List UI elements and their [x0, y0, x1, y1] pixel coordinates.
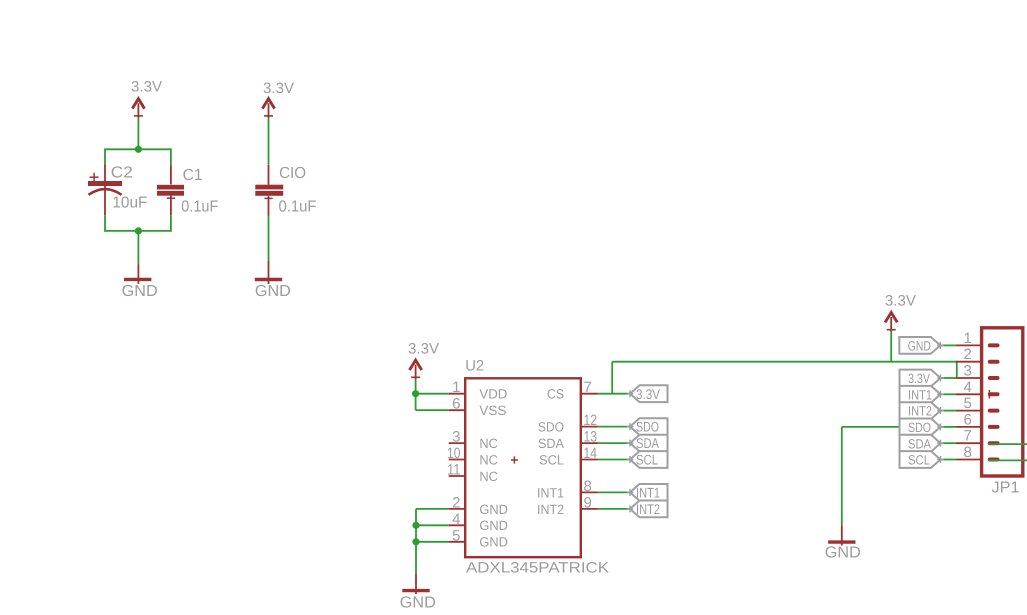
label CIO [279, 165, 306, 182]
pin number 6 [452, 396, 460, 413]
wire top rail C2-C1 [105, 148, 171, 150]
connector JP1 body [982, 328, 1023, 476]
svg-text:3.3V: 3.3V [131, 79, 162, 96]
ground symbol (left) [124, 278, 151, 281]
pin 9 stub [581, 508, 598, 510]
pin name GND (pin 4) [479, 518, 508, 533]
connector pin number 1 [963, 330, 971, 347]
pin 1 stub [449, 393, 466, 395]
svg-text:GND: GND [479, 502, 508, 517]
supply symbol 3.3V (CIO) [262, 99, 274, 119]
svg-text:4: 4 [452, 511, 460, 528]
svg-text:CIO: CIO [279, 165, 306, 182]
wire flag to pin5 [940, 410, 956, 412]
svg-text:7: 7 [963, 428, 971, 445]
ground symbol (CIO) [255, 278, 282, 281]
svg-text:GND: GND [479, 518, 508, 533]
ground pin (JP1 area) [841, 525, 843, 545]
pin 12 stub [581, 426, 598, 428]
wire SCL to edge [988, 459, 1027, 461]
net flag INT2 (JP1) [900, 402, 944, 419]
origin cross U2 [511, 456, 518, 463]
pin 6 stub [449, 409, 466, 411]
wire GND stem (left) [137, 231, 139, 265]
op-amp U2 body [465, 378, 581, 557]
connector pin 6 stub [956, 426, 982, 428]
svg-text:3: 3 [963, 363, 971, 380]
label C2 [111, 165, 133, 182]
svg-text:SCL: SCL [539, 452, 564, 467]
wire GND pin2 [416, 508, 449, 510]
wire flag to pin4 [940, 393, 956, 395]
svg-text:GND: GND [255, 283, 291, 300]
pin 2 stub [449, 508, 466, 510]
svg-text:SCL: SCL [636, 452, 658, 468]
svg-text:11: 11 [447, 462, 461, 479]
pin name GND (pin 5) [479, 535, 508, 550]
connector pin 1 stub [956, 344, 982, 346]
connector pin 5 stub [956, 410, 982, 412]
value 10uF [112, 195, 147, 212]
power flag 3.3V label (JP1) [885, 293, 916, 310]
svg-text:3.3V: 3.3V [885, 293, 916, 310]
svg-text:SDO: SDO [538, 420, 564, 435]
pin number 7 [584, 379, 592, 396]
capacitor CIO [255, 165, 283, 216]
connector pin 7 stub [956, 442, 982, 444]
connector pin number 4 [963, 379, 971, 396]
capacitor C1 [157, 165, 184, 215]
pin number 12 [584, 412, 598, 429]
wire VDD [416, 393, 449, 395]
connector pin number 3 [963, 363, 971, 380]
supply symbol 3.3V (left) [132, 99, 144, 119]
node junction pin5 [412, 538, 419, 545]
svg-text:ADXL345PATRICK: ADXL345PATRICK [466, 560, 609, 577]
svg-text:3.3V: 3.3V [263, 80, 294, 97]
wire C1 bottom [170, 215, 172, 232]
pin name VSS (pin 6) [479, 403, 506, 418]
connector JP1 pads [988, 343, 1000, 461]
pin number 8 [584, 478, 592, 495]
pin number 5 [452, 527, 460, 544]
svg-text:6: 6 [452, 396, 460, 413]
svg-text:VDD: VDD [479, 387, 507, 402]
node junction VDD [412, 390, 419, 397]
ground pin (U2) [415, 574, 417, 594]
pin name NC (pin 11) [479, 469, 498, 484]
pin name NC (pin 10) [479, 452, 498, 467]
svg-text:10: 10 [447, 445, 461, 462]
value 0.1uF (C1) [181, 199, 218, 216]
wire C1 top drop [170, 148, 172, 165]
net flag INT1 (JP1) [900, 386, 944, 403]
pin name INT2 (pin 9) [537, 502, 564, 517]
wire SDA to edge [988, 443, 1027, 445]
connector pin number 7 [963, 428, 971, 445]
label JP1 [992, 480, 1020, 497]
pin name INT1 (pin 8) [537, 485, 564, 500]
pin number 10 [447, 445, 461, 462]
svg-text:8: 8 [963, 444, 971, 461]
svg-text:NC: NC [479, 436, 498, 451]
wire SDA [598, 442, 631, 444]
svg-text:12: 12 [584, 412, 598, 429]
pin 10 stub [449, 459, 466, 461]
wire SDO [598, 426, 631, 428]
label GND (left) [122, 283, 158, 300]
svg-text:GND: GND [122, 283, 158, 300]
svg-text:1: 1 [963, 330, 971, 347]
wire flag to pin6 [940, 426, 956, 428]
svg-text:INT2: INT2 [908, 404, 932, 419]
connector pin 8 stub [956, 459, 982, 461]
power flag 3.3V label (left) [131, 79, 162, 96]
wire flag to pin7 [940, 442, 956, 444]
wire GND pin5 [416, 541, 449, 543]
node junction top [135, 146, 142, 153]
svg-text:4: 4 [963, 379, 971, 396]
wire SCL [598, 459, 631, 461]
wire INT1 [598, 491, 631, 493]
wire SDO horizontal [842, 426, 941, 428]
svg-text:GND: GND [908, 339, 931, 354]
pin 8 stub [581, 491, 598, 493]
svg-text:GND: GND [825, 545, 861, 562]
svg-text:SDO: SDO [636, 419, 659, 435]
svg-text:GND: GND [400, 595, 436, 612]
wire CIO bottom [268, 216, 270, 261]
connector pin number 8 [963, 444, 971, 461]
wire 3.3V drop to pin3 [956, 362, 958, 378]
svg-text:SDA: SDA [636, 435, 660, 451]
wire GND pin4 [416, 524, 449, 526]
power flag 3.3V label (CIO) [263, 80, 294, 97]
connector pin4 tick [988, 390, 990, 399]
svg-text:GND: GND [479, 535, 508, 550]
svg-text:5: 5 [452, 527, 460, 544]
wire 3.3V stem (left) [137, 118, 139, 150]
node junction bottom [135, 227, 142, 234]
ground pin (left) [137, 265, 139, 284]
label GND (U2) [400, 595, 436, 612]
svg-text:CS: CS [547, 387, 564, 402]
wire flag to pin8 [940, 459, 956, 461]
pin 11 stub [449, 475, 466, 477]
pin number 4 [452, 511, 460, 528]
svg-text:SCL: SCL [908, 453, 930, 468]
svg-text:10uF: 10uF [112, 195, 147, 212]
supply symbol 3.3V (JP1) [885, 313, 897, 333]
svg-text:NC: NC [479, 469, 498, 484]
supply symbol 3.3V (U2) [410, 360, 422, 380]
net flag 3.3V (JP1) [900, 370, 944, 387]
svg-text:7: 7 [584, 379, 592, 396]
wire CS riser [611, 362, 613, 394]
pin name SDO (pin 12) [538, 420, 564, 435]
ground pin (CIO) [268, 261, 270, 284]
svg-text:U2: U2 [465, 358, 484, 375]
net flag SDO (U2) [627, 418, 668, 435]
wire GND flag to pin1 [940, 344, 956, 346]
connector pin number 6 [963, 411, 971, 428]
pin 13 stub [581, 442, 598, 444]
pin number 13 [584, 429, 598, 446]
pin name NC (pin 3) [479, 436, 498, 451]
wire flag to pin3 [940, 377, 956, 379]
pin 7 stub [581, 393, 598, 395]
svg-text:3: 3 [452, 429, 460, 446]
pin 5 stub [449, 541, 466, 543]
svg-text:5: 5 [963, 395, 971, 412]
net flag SDA (JP1) [900, 435, 944, 452]
svg-text:3.3V: 3.3V [908, 371, 930, 386]
pin number 2 [452, 494, 460, 511]
pin name SDA (pin 13) [538, 436, 564, 451]
wire INT2 [598, 508, 631, 510]
wire GND vertical (U2) [415, 509, 417, 574]
net flag 3.3V (U2) [627, 385, 668, 402]
svg-text:0.1uF: 0.1uF [181, 199, 218, 216]
node junction pin4 [412, 522, 419, 529]
svg-text:INT1: INT1 [908, 387, 932, 402]
svg-text:3.3V: 3.3V [636, 386, 661, 402]
svg-text:9: 9 [584, 494, 592, 511]
net flag INT2 (U2) [627, 501, 668, 518]
pin name SCL (pin 14) [539, 452, 564, 467]
wire C2 top drop [104, 148, 106, 164]
wire 3.3V rail to JP1 [612, 361, 957, 363]
pin 14 stub [581, 459, 598, 461]
pin number 9 [584, 494, 592, 511]
wire VSS [416, 409, 449, 411]
wire 3.3V stem (JP1) [890, 331, 892, 362]
svg-text:13: 13 [584, 429, 598, 446]
svg-text:1: 1 [452, 379, 460, 396]
wire CS [598, 393, 631, 395]
svg-text:6: 6 [963, 411, 971, 428]
svg-text:VSS: VSS [479, 403, 506, 418]
net flag SDO (JP1) [900, 419, 944, 436]
svg-text:14: 14 [584, 445, 598, 462]
svg-text:JP1: JP1 [992, 480, 1020, 497]
svg-text:C1: C1 [183, 167, 203, 184]
svg-text:INT1: INT1 [636, 485, 660, 501]
power flag 3.3V label (U2) [408, 341, 439, 358]
value 0.1uF (CIO) [279, 199, 317, 216]
wire SDO vertical [841, 427, 843, 525]
value ADXL345PATRICK [466, 560, 609, 577]
wire 3.3V stem (U2) [415, 379, 417, 410]
svg-text:2: 2 [963, 346, 971, 363]
label GND (JP1 area) [825, 545, 861, 562]
svg-text:INT2: INT2 [537, 502, 564, 517]
pin number 14 [584, 445, 598, 462]
svg-text:NC: NC [479, 452, 498, 467]
net flag SDA (U2) [627, 435, 668, 452]
pin name CS (pin 7) [547, 387, 564, 402]
pin number 1 [452, 379, 460, 396]
wire 3.3V stem (CIO) [268, 118, 270, 165]
svg-text:INT1: INT1 [537, 485, 564, 500]
label GND (CIO) [255, 283, 291, 300]
svg-text:8: 8 [584, 478, 592, 495]
svg-text:INT2: INT2 [636, 501, 660, 517]
net flag SCL (JP1) [900, 451, 944, 468]
connector pin number 2 [963, 346, 971, 363]
ground symbol (U2) [402, 589, 429, 592]
connector pin 2 stub [956, 361, 982, 363]
wire bottom rail C2-C1 [105, 230, 171, 232]
ground symbol (JP1 area) [828, 540, 855, 543]
pin number 3 [452, 429, 460, 446]
net flag GND (JP1) [899, 337, 943, 354]
pin 3 stub [449, 442, 466, 444]
label U2 [465, 358, 484, 375]
connector pin 3 stub [956, 377, 982, 379]
pin number 11 [447, 462, 461, 479]
label C1 [183, 167, 203, 184]
net flag INT1 (U2) [627, 484, 668, 501]
pin 4 stub [449, 524, 466, 526]
pin name GND (pin 2) [479, 502, 508, 517]
wire C2 bottom [104, 215, 106, 232]
svg-text:C2: C2 [111, 165, 133, 182]
svg-text:3.3V: 3.3V [408, 341, 439, 358]
svg-text:0.1uF: 0.1uF [279, 199, 317, 216]
pin name VDD (pin 1) [479, 387, 507, 402]
net flag SCL (U2) [627, 451, 668, 468]
capacitor C2 [88, 164, 122, 215]
connector pin number 5 [963, 395, 971, 412]
svg-text:SDO: SDO [908, 420, 931, 435]
svg-text:SDA: SDA [538, 436, 564, 451]
svg-text:2: 2 [452, 494, 460, 511]
connector pin 4 stub [956, 393, 982, 395]
svg-text:SDA: SDA [908, 436, 931, 451]
